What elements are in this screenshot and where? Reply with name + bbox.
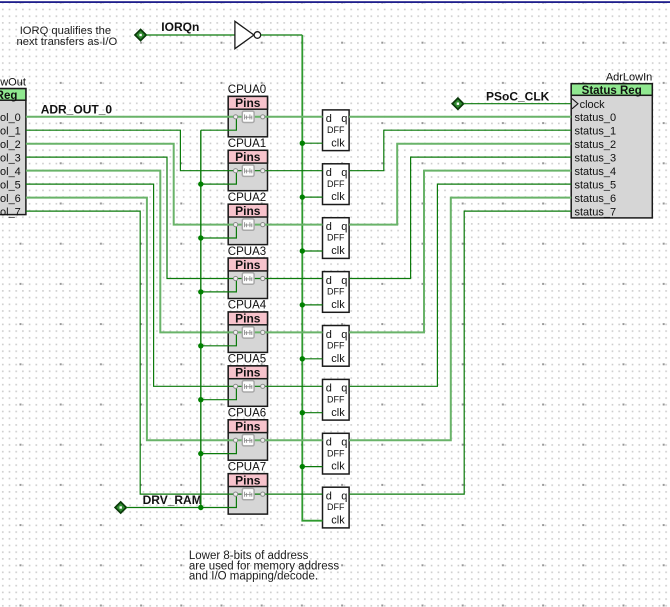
- wire PSoC_CLK to Status Reg clock pin: [464, 103, 572, 105]
- svg-text:IORQ qualifies the: IORQ qualifies the: [20, 25, 111, 37]
- svg-text:status_5: status_5: [575, 180, 617, 192]
- d flip-flop DFF5: [323, 379, 350, 420]
- wire net control_1 to pin CPUA1 and DFF1 d: [26, 130, 323, 171]
- svg-text:CPUA6: CPUA6: [228, 408, 266, 420]
- svg-text:CPUA5: CPUA5: [228, 354, 266, 366]
- wire DFF0 q to status_0: [349, 116, 571, 118]
- svg-text:status_0: status_0: [575, 112, 617, 124]
- wire clk stub to DFF2: [302, 250, 322, 252]
- status register U_AdrLowIn (Status Reg): [571, 71, 652, 218]
- svg-text:DFF: DFF: [327, 502, 345, 512]
- svg-text:d: d: [326, 167, 332, 179]
- wire DRV_RAM branch to pin CPUA3: [201, 279, 237, 292]
- wire DFF7 q to status_7: [349, 211, 571, 494]
- svg-text:CPUA7: CPUA7: [228, 461, 266, 473]
- svg-text:q: q: [341, 383, 347, 395]
- junction on clk net at DFF5: [300, 410, 305, 415]
- svg-text:clk: clk: [331, 407, 345, 419]
- wire clk stub to DFF3: [302, 304, 322, 306]
- svg-text:control_6: control_6: [0, 193, 21, 205]
- wire DRV_RAM branch to pin CPUA2: [201, 225, 237, 238]
- svg-text:DFF: DFF: [327, 341, 345, 351]
- svg-text:status_3: status_3: [575, 153, 617, 165]
- terminal DRV_RAM (off-sheet connector diamond): [115, 502, 126, 513]
- pins component CPUA6: [228, 408, 268, 461]
- wire DFF1 q to status_1: [349, 130, 571, 171]
- junction on DRV_RAM net at CPUA2 branch: [198, 235, 203, 240]
- svg-text:clk: clk: [331, 461, 345, 473]
- svg-text:d: d: [326, 221, 332, 233]
- junction on clk net at DFF1: [300, 194, 305, 199]
- pins component CPUA4 symbol and terminals: [234, 327, 265, 338]
- svg-text:q: q: [341, 221, 347, 233]
- pins component CPUA7: [228, 461, 268, 514]
- wire inverter output to clk bus vertical: [261, 34, 303, 36]
- pins component CPUA2 symbol and terminals: [234, 219, 265, 230]
- svg-text:Pins: Pins: [235, 96, 261, 110]
- wire clk stub to DFF1: [302, 196, 322, 198]
- wire DRV_RAM branch to pin CPUA1: [201, 171, 237, 184]
- svg-text:Pins: Pins: [235, 366, 261, 380]
- inverter U_not (NOT gate): [235, 21, 261, 48]
- svg-text:status_6: status_6: [575, 193, 617, 205]
- svg-text:PSoC_CLK: PSoC_CLK: [486, 89, 550, 103]
- svg-text:clk: clk: [331, 245, 345, 257]
- svg-text:control_3: control_3: [0, 153, 21, 165]
- svg-text:ADR_OUT_0: ADR_OUT_0: [41, 102, 113, 116]
- note: IORQ annotation text: [17, 25, 118, 48]
- junction on DRV_RAM net at diamond wire: [198, 505, 203, 510]
- svg-text:and I/O mapping/decode.: and I/O mapping/decode.: [189, 571, 318, 583]
- wire clk stub to DFF0: [302, 142, 322, 144]
- pins component CPUA7 symbol and terminals: [234, 488, 265, 499]
- wire net ADR_OUT_0 : control_0 through pin CPUA0 to DFF0 d: [26, 116, 323, 118]
- junction on clk net at DFF6: [300, 464, 305, 469]
- svg-text:CPUA4: CPUA4: [228, 300, 267, 312]
- pins component CPUA0 symbol and terminals: [234, 111, 265, 122]
- svg-text:DFF: DFF: [327, 125, 345, 135]
- svg-text:q: q: [341, 275, 347, 287]
- svg-text:CPUA0: CPUA0: [228, 84, 266, 96]
- svg-text:IORQn: IORQn: [161, 20, 199, 34]
- junction on DRV_RAM net at CPUA5 branch: [198, 397, 203, 402]
- wire net control_2 to pin CPUA2 and DFF2 d: [26, 144, 323, 225]
- wire DFF6 q to status_6: [349, 198, 571, 441]
- note: lower 8-bits annotation text: [189, 550, 339, 583]
- svg-text:next transfers as I/O: next transfers as I/O: [17, 36, 118, 48]
- wire DRV_RAM branch to pin CPUA5: [201, 386, 237, 399]
- svg-text:Status Reg: Status Reg: [582, 85, 642, 97]
- wire clk stub to DFF6: [302, 466, 322, 468]
- pins component CPUA5 symbol and terminals: [234, 381, 265, 392]
- d flip-flop DFF1: [323, 164, 350, 205]
- svg-text:Control Reg: Control Reg: [0, 90, 17, 102]
- pins component CPUA3 symbol and terminals: [234, 273, 265, 284]
- wire net control_6 to pin CPUA6 and DFF6 d: [26, 198, 323, 441]
- svg-text:control_5: control_5: [0, 180, 21, 192]
- svg-text:DFF: DFF: [327, 287, 345, 297]
- terminal IORQn (off-sheet connector diamond): [135, 29, 146, 40]
- junction on clk net at DFF0: [300, 141, 305, 146]
- wire DRV_RAM branch to pin CPUA0: [201, 117, 237, 130]
- terminal PSoC_CLK (off-sheet connector diamond): [452, 98, 463, 109]
- svg-text:Pins: Pins: [235, 420, 261, 434]
- d flip-flop DFF3: [323, 272, 350, 313]
- svg-text:q: q: [341, 437, 347, 449]
- svg-text:clk: clk: [331, 515, 345, 527]
- junction on DRV_RAM net at CPUA4 branch: [198, 343, 203, 348]
- svg-text:status_2: status_2: [575, 139, 617, 151]
- wire DRV_RAM branch to pin CPUA4: [201, 332, 237, 345]
- wire DRV_RAM diamond to pin CPUA7: [126, 494, 236, 508]
- d flip-flop DFF2: [323, 218, 350, 259]
- svg-text:status_1: status_1: [575, 126, 617, 138]
- junction on DRV_RAM net at CPUA6 branch: [198, 451, 203, 456]
- svg-text:d: d: [326, 491, 332, 503]
- junction on clk net at DFF3: [300, 302, 305, 307]
- svg-text:control_2: control_2: [0, 139, 21, 151]
- d flip-flop DFF4: [323, 326, 350, 367]
- pins component CPUA3: [228, 246, 268, 299]
- junction on DRV_RAM net at CPUA3 branch: [198, 289, 203, 294]
- svg-text:CPUA1: CPUA1: [228, 138, 266, 150]
- svg-text:clock: clock: [580, 99, 606, 111]
- pins component CPUA0: [228, 84, 268, 137]
- pins component CPUA6 symbol and terminals: [234, 435, 265, 446]
- svg-text:control_1: control_1: [0, 126, 21, 138]
- pins component CPUA4: [228, 300, 268, 353]
- svg-text:clk: clk: [331, 137, 345, 149]
- wire DFF2 q to status_2: [349, 144, 571, 225]
- wire DFF5 q to status_5: [349, 184, 571, 386]
- junction on clk net at DFF2: [300, 248, 305, 253]
- d flip-flop DFF7: [323, 487, 350, 528]
- wire DRV_RAM branch to pin CPUA6: [201, 440, 237, 453]
- svg-text:CPUA3: CPUA3: [228, 246, 266, 258]
- svg-text:q: q: [341, 113, 347, 125]
- control register U_AdrLowOut (Control Reg, clipped at left edge): [0, 77, 26, 219]
- svg-text:Pins: Pins: [235, 204, 261, 218]
- wire IORQn diamond to inverter input: [146, 34, 235, 36]
- svg-text:q: q: [341, 167, 347, 179]
- pins component CPUA2: [228, 192, 268, 245]
- wire DFF3 q to status_3: [349, 157, 571, 278]
- wire net control_5 to pin CPUA5 and DFF5 d: [26, 184, 323, 386]
- svg-text:d: d: [326, 383, 332, 395]
- svg-text:AdrLowOut: AdrLowOut: [0, 77, 26, 89]
- svg-text:clk: clk: [331, 299, 345, 311]
- wire clk stub to DFF5: [302, 412, 322, 414]
- d flip-flop DFF6: [323, 433, 350, 474]
- svg-text:d: d: [326, 113, 332, 125]
- svg-text:control_7: control_7: [0, 207, 21, 219]
- junction on clk net at DFF4: [300, 356, 305, 361]
- svg-text:Pins: Pins: [235, 312, 261, 326]
- svg-text:clk: clk: [331, 353, 345, 365]
- svg-text:Pins: Pins: [235, 473, 261, 487]
- pins component CPUA1 symbol and terminals: [234, 165, 265, 176]
- pins component CPUA5: [228, 354, 268, 407]
- wire net control_3 to pin CPUA3 and DFF3 d: [26, 157, 323, 278]
- svg-text:status_4: status_4: [575, 166, 617, 178]
- svg-text:clk: clk: [331, 191, 345, 203]
- svg-text:q: q: [341, 491, 347, 503]
- wire net control_4 to pin CPUA4 and DFF4 d: [26, 171, 323, 333]
- wire net control_7 to pin CPUA7 and DFF7 d: [26, 211, 323, 494]
- wire clk stub to DFF4: [302, 358, 322, 360]
- d flip-flop DFF0: [323, 110, 350, 151]
- svg-text:AdrLowIn: AdrLowIn: [606, 71, 652, 83]
- svg-text:DRV_RAM: DRV_RAM: [143, 493, 202, 507]
- svg-text:d: d: [326, 329, 332, 341]
- svg-text:d: d: [326, 437, 332, 449]
- svg-text:control_0: control_0: [0, 112, 21, 124]
- svg-text:DFF: DFF: [327, 394, 345, 404]
- wire DRV_RAM bus vertical: [200, 130, 202, 507]
- pins component CPUA1: [228, 138, 268, 191]
- svg-text:d: d: [326, 275, 332, 287]
- svg-text:DFF: DFF: [327, 233, 345, 243]
- svg-text:Pins: Pins: [235, 150, 261, 164]
- junction on DRV_RAM net at CPUA1 branch: [198, 181, 203, 186]
- svg-text:Pins: Pins: [235, 258, 261, 272]
- svg-text:DFF: DFF: [327, 448, 345, 458]
- svg-text:control_4: control_4: [0, 166, 21, 178]
- svg-text:status_7: status_7: [575, 207, 617, 219]
- svg-text:DFF: DFF: [327, 179, 345, 189]
- svg-text:q: q: [341, 329, 347, 341]
- svg-text:CPUA2: CPUA2: [228, 192, 266, 204]
- wire DFF4 q to status_4: [349, 171, 571, 333]
